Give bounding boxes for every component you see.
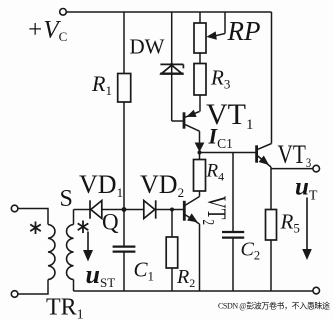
wire output uT (271, 167, 313, 169)
terminal bottom right (313, 287, 320, 294)
svg-text:R5: R5 (280, 210, 300, 236)
transistor VT2 (NPN) (184, 197, 199, 225)
svg-text:R4: R4 (206, 161, 225, 184)
svg-text:R3: R3 (210, 66, 230, 92)
svg-text:VD2: VD2 (140, 170, 184, 200)
capacitor C2 (222, 232, 244, 238)
capacitor C1 (113, 247, 136, 252)
diode VD2 (144, 200, 156, 218)
wire bottom rail (74, 290, 313, 292)
svg-text:VT3: VT3 (278, 141, 312, 170)
wire R2 branch (171, 210, 173, 292)
junction dot DW anode apex (170, 63, 174, 67)
wiper arrow RP (206, 31, 217, 39)
wire node to VT3 base (200, 152, 256, 154)
wire R5 branch (270, 169, 272, 291)
transistor VT3 (NPN) (257, 144, 272, 168)
wire transformer primary bottom (18, 280, 48, 295)
wire DW branch (172, 12, 183, 121)
resistor R1 (118, 74, 131, 103)
diode VD1 (90, 200, 102, 218)
terminal uT output (313, 165, 320, 172)
svg-text:CSDN @彭波万卷书，不入愚昧途: CSDN @彭波万卷书，不入愚昧途 (218, 301, 330, 311)
svg-text:DW: DW (130, 35, 165, 59)
transistor VT1 (PNP) (184, 112, 200, 132)
svg-text:C1: C1 (134, 258, 155, 284)
arrow uST (87, 232, 89, 252)
resistor R2 (166, 237, 178, 268)
potentiometer RP (194, 23, 206, 53)
current arrow IC1 (195, 143, 205, 153)
node Q (122, 207, 127, 212)
wire transformer secondary bottom (73, 280, 75, 292)
wire top rail (66, 11, 271, 13)
terminal transformer top left (11, 205, 18, 212)
wire VD chain (74, 209, 184, 211)
wire R1 to node Q (123, 102, 125, 210)
terminal +Vc (60, 9, 67, 16)
transformer TR1 secondary coil (67, 225, 74, 280)
wire VT1 collector (199, 131, 201, 152)
polarity asterisk primary (30, 222, 41, 235)
wire VT2 emitter down (199, 224, 201, 291)
polarity asterisk secondary (78, 221, 89, 234)
svg-text:VD1: VD1 (79, 170, 123, 200)
svg-text:R2: R2 (176, 266, 195, 290)
svg-text:Q: Q (102, 210, 119, 235)
wire R4 branch (199, 153, 201, 197)
wire R1 branch (123, 12, 125, 74)
resistor R3 (194, 64, 206, 96)
wire RP branch (199, 12, 201, 112)
terminal transformer bottom left (11, 291, 18, 298)
junction dot IC1 node (198, 151, 202, 155)
wire transformer primary top (18, 209, 48, 225)
wire transformer secondary top (73, 210, 75, 225)
svg-text:uST: uST (86, 260, 116, 290)
svg-text:TR1: TR1 (46, 295, 84, 320)
svg-text:S: S (60, 186, 73, 212)
svg-text:R1: R1 (91, 71, 112, 98)
wire right drop to VT3 collector (271, 12, 273, 144)
svg-text:VT2: VT2 (198, 196, 231, 225)
junction dot R2 (170, 208, 174, 212)
wire C1 (123, 210, 125, 292)
arrow uT (306, 198, 308, 251)
svg-text:C2: C2 (241, 239, 261, 263)
resistor R4 (194, 160, 206, 192)
wire RP wiper stem (214, 12, 226, 36)
resistor R5 (266, 210, 277, 241)
svg-text:+VC: +VC (27, 17, 68, 45)
zener diode DW (160, 64, 183, 73)
transformer TR1 primary coil (48, 225, 55, 280)
wire C2 branch (232, 153, 234, 292)
svg-text:RP: RP (227, 16, 261, 46)
